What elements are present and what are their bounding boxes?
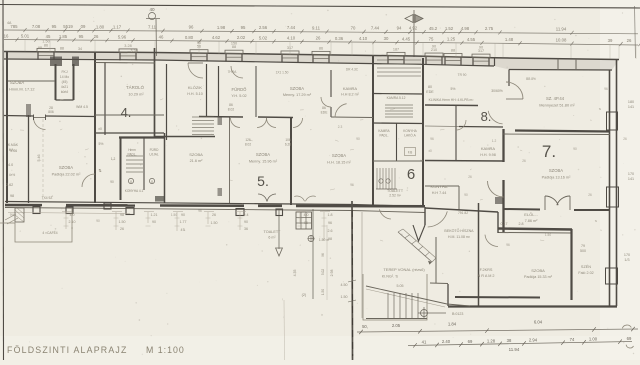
svg-text:88: 88: [60, 47, 64, 51]
svg-text:KAMRA 5.12: KAMRA 5.12: [387, 96, 406, 100]
svg-text:90: 90: [479, 45, 483, 49]
svg-text:90: 90: [432, 44, 436, 48]
room7 top wall y131: [515, 131, 610, 132]
svg-text:3.28: 3.28: [124, 44, 131, 48]
svg-text:96: 96: [198, 209, 202, 213]
svg-text:4.45: 4.45: [402, 36, 411, 41]
basement stair rungs: [398, 229, 436, 262]
bottom dim1 ticks: [359, 327, 635, 334]
svg-text:98: 98: [10, 194, 14, 198]
bottom dimension line 2: [408, 342, 632, 346]
svg-text:7.86 m²: 7.86 m²: [525, 219, 539, 223]
top wall pier fills: [37, 48, 490, 65]
chimney block 2 dark: [72, 57, 79, 67]
top wall inner line left: [4, 59, 494, 66]
porch post 4: [236, 209, 244, 216]
svg-text:FKJ: FKJ: [61, 70, 67, 74]
svg-text:7.: 7.: [542, 142, 556, 161]
svg-text:H.H. 5.10: H.H. 5.10: [187, 92, 203, 96]
svg-text:30: 30: [384, 36, 389, 41]
svg-text:806: 806: [48, 110, 54, 114]
svg-text:4.50: 4.50: [341, 283, 348, 287]
survey point circle: [421, 310, 428, 317]
svg-text:1.80: 1.80: [96, 24, 105, 29]
svg-text:26: 26: [316, 36, 321, 41]
svg-text:1.50: 1.50: [545, 233, 551, 237]
svg-text:2.3: 2.3: [338, 125, 343, 129]
svg-text:88: 88: [451, 48, 455, 52]
porch diagonal marks: [5, 214, 16, 220]
svg-text:1.21: 1.21: [151, 213, 158, 217]
wall x290 main: [290, 117, 292, 205]
svg-text:KONYHA: KONYHA: [431, 184, 448, 189]
svg-text:4.62: 4.62: [212, 35, 221, 40]
svg-text:KI.NG². ⇅: KI.NG². ⇅: [382, 275, 399, 279]
page right border line: [635, 6, 636, 58]
svg-text:6 m²: 6 m²: [268, 236, 276, 240]
svg-text:KAMRA: KAMRA: [378, 129, 390, 133]
svg-text:SZ. 4P.44: SZ. 4P.44: [546, 96, 565, 101]
door arc room8 down: [488, 111, 502, 124]
svg-text:14 Mo: 14 Mo: [60, 75, 69, 79]
svg-text:4.55: 4.55: [467, 37, 476, 42]
svg-text:ELŐL...: ELŐL...: [524, 212, 538, 217]
svg-text:2.10: 2.10: [69, 220, 76, 224]
wall left outer: [6, 52, 8, 203]
svg-text:90: 90: [110, 180, 114, 184]
double door arcs porch B: [294, 196, 304, 201]
room6 upper stair treads: [385, 105, 413, 117]
svg-text:1.2: 1.2: [492, 139, 497, 143]
wall y161 room6: [373, 160, 423, 162]
svg-text:⇅: ⇅: [599, 107, 602, 111]
dark hatch block bottom: [155, 196, 165, 202]
svg-text:SZOBA: SZOBA: [59, 165, 73, 170]
svg-text:5.: 5.: [257, 173, 269, 189]
FB boxed symbol: [405, 148, 416, 156]
svg-text:1.50: 1.50: [171, 213, 177, 217]
svg-text:1.50: 1.50: [341, 295, 348, 299]
svg-text:6.04: 6.04: [534, 320, 543, 325]
svg-text:Hmm.M. 17.12: Hmm.M. 17.12: [9, 87, 35, 92]
svg-text:8.02: 8.02: [228, 108, 235, 112]
double door butterfly room7 bottom: [545, 196, 558, 205]
svg-text:170: 170: [628, 172, 634, 176]
double door butterfly porch: [258, 194, 267, 201]
svg-text:46: 46: [159, 35, 164, 40]
dimension numbers row 2: [4, 34, 632, 43]
small tick marks under wall: [62, 211, 330, 213]
svg-text:SZOBA: SZOBA: [189, 152, 203, 157]
svg-text:90: 90: [356, 137, 360, 141]
svg-text:86: 86: [229, 103, 233, 107]
svg-text:2.05: 2.05: [392, 323, 401, 328]
svg-text:6: 6: [407, 166, 415, 183]
svg-text:1.17: 1.17: [113, 24, 122, 29]
svg-text:95: 95: [79, 34, 84, 39]
svg-text:9.11: 9.11: [312, 25, 321, 30]
svg-text:5.46: 5.46: [37, 155, 41, 162]
porch post extra: [104, 203, 111, 209]
wall x331 upper: [330, 70, 332, 97]
svg-text:4.: 4.: [121, 105, 132, 120]
main bottom wall outer y202: [5, 202, 425, 207]
terrain stair hatch: [388, 293, 418, 318]
svg-text:1.2: 1.2: [111, 157, 116, 161]
wall x436 terrain edge: [435, 237, 437, 283]
svg-text:EDE: EDE: [321, 111, 329, 115]
wall x373 main: [372, 56, 374, 205]
svg-text:95: 95: [52, 24, 57, 29]
door arc room6 porch: [379, 209, 391, 219]
svg-text:Mennyezet 51.80 m²: Mennyezet 51.80 m²: [539, 103, 575, 108]
svg-text:4 ×CAFÉ4: 4 ×CAFÉ4: [42, 230, 57, 235]
svg-text:210: 210: [431, 48, 437, 52]
svg-text:26: 26: [522, 159, 526, 163]
svg-text:UJJAL: UJJAL: [149, 153, 159, 157]
svg-text:H.H. 18.15 m²: H.H. 18.15 m²: [327, 161, 351, 165]
svg-text:±0: ±0: [428, 149, 432, 153]
wc block left wall x120: [120, 138, 122, 201]
svg-text:SZOBA: SZOBA: [290, 86, 304, 91]
svg-text:170: 170: [624, 253, 630, 257]
wall x105 tarolo left: [104, 62, 106, 135]
svg-text:2.75: 2.75: [485, 26, 494, 31]
svg-text:KONYHA 4.1: KONYHA 4.1: [125, 189, 144, 193]
svg-text:Padlója 13.16 m²: Padlója 13.16 m²: [542, 176, 571, 180]
svg-text:KAMRA: KAMRA: [343, 86, 358, 91]
dimension numbers row 1: [10, 24, 566, 32]
svg-text:40: 40: [149, 7, 155, 12]
svg-text:kürtő: kürtő: [61, 90, 68, 94]
svg-text:Y.H. 5.02: Y.H. 5.02: [231, 94, 246, 98]
svg-text:FÜRDŐ: FÜRDŐ: [232, 87, 248, 92]
svg-text:1.8: 1.8: [328, 213, 333, 217]
svg-text:5.05: 5.05: [397, 284, 404, 288]
svg-text:SZÉN: SZÉN: [581, 264, 591, 269]
svg-text:Faló 2.02: Faló 2.02: [578, 271, 593, 275]
wall y126 light x425-459: [425, 125, 459, 128]
svg-text:3.28: 3.28: [131, 49, 138, 53]
wall x166: [166, 64, 168, 140]
svg-text:500: 500: [580, 249, 586, 253]
wall y105 x425-478: [425, 104, 478, 107]
svg-text:1.50: 1.50: [119, 220, 126, 224]
dimension chain line 2: [4, 40, 638, 46]
svg-text:95: 95: [241, 25, 246, 30]
wall y117 x331-373: [331, 116, 373, 119]
svg-text:K.MÁK: K.MÁK: [8, 143, 19, 147]
room7 bottom wall y209: [504, 208, 540, 211]
svg-text:1.98: 1.98: [217, 25, 226, 30]
vertical reference line x156: [155, 19, 158, 56]
svg-text:86: 86: [44, 43, 48, 47]
wall x256 upper: [255, 66, 257, 117]
room interior dim line x43: [42, 119, 44, 200]
svg-text:8.: 8.: [481, 109, 492, 124]
svg-text:TR 90: TR 90: [458, 73, 467, 77]
svg-text:2.62: 2.62: [6, 183, 13, 187]
svg-text:180: 180: [628, 100, 634, 104]
svg-text:1.25: 1.25: [447, 37, 456, 42]
section line x313: [312, 209, 314, 299]
svg-text:×: ×: [321, 313, 323, 317]
svg-text:317: 317: [478, 49, 484, 53]
door arc eloszoba: [428, 211, 448, 227]
svg-text:5519: 5519: [63, 24, 73, 29]
svg-text:8: 8: [130, 180, 132, 184]
right outer wall inner face: [609, 70, 611, 307]
porch post 3: [126, 208, 134, 215]
svg-text:FÜRD: FÜRD: [150, 148, 160, 152]
svg-text:16: 16: [4, 34, 9, 39]
wall x28 pier: [26, 104, 31, 117]
svg-text:41: 41: [422, 340, 427, 345]
svg-text:±0: ±0: [98, 127, 102, 131]
svg-text:86: 86: [319, 46, 323, 50]
bottom right squiggle: [622, 325, 631, 328]
wall y117 rooms 5: [199, 116, 243, 119]
svg-text:SZOBA: SZOBA: [256, 152, 270, 157]
svg-text:(45): (45): [62, 80, 68, 84]
wc block mid wall x144: [143, 138, 145, 191]
svg-text:1X1 1.50: 1X1 1.50: [276, 71, 289, 75]
right outer wall outer face: [616, 60, 618, 307]
left porch steps: [0, 208, 72, 242]
staircase treads small: [126, 156, 143, 172]
wc block top wall y137: [119, 136, 165, 138]
svg-text:BB 8%: BB 8%: [526, 77, 536, 81]
svg-text:34: 34: [78, 47, 82, 51]
dim column x327: [326, 225, 328, 300]
svg-text:6.28: 6.28: [285, 143, 291, 147]
floor drain circle 2: [149, 178, 154, 183]
room6 divider x396: [396, 123, 398, 161]
svg-text:M 1:100: M 1:100: [146, 345, 185, 355]
right wall pilaster 2: [607, 187, 619, 207]
svg-text:45: 45: [46, 34, 51, 39]
scan streaks: [600, 0, 640, 360]
wall x218 upper: [218, 66, 220, 116]
svg-text:7.08: 7.08: [32, 24, 41, 29]
basement stair diagonal arrows: [398, 232, 432, 262]
svg-text:141: 141: [628, 177, 634, 181]
svg-text:98: 98: [38, 46, 42, 50]
eloszoba bottom wall y229: [498, 229, 572, 230]
chimney block 1 dark: [50, 57, 62, 67]
svg-text:4.0: 4.0: [8, 163, 13, 167]
bottom dim2 ticks and numbers: [413, 336, 632, 348]
svg-text:11.94: 11.94: [556, 26, 567, 31]
svg-text:PADL.: PADL.: [380, 134, 389, 138]
svg-text:F.B: F.B: [408, 151, 413, 155]
svg-text:86: 86: [322, 106, 326, 110]
svg-text:2.4: 2.4: [244, 213, 249, 217]
svg-text:4A: 4A: [7, 21, 12, 25]
section line x352 dark: [351, 201, 354, 360]
svg-text:5.96: 5.96: [118, 34, 127, 39]
svg-text:H.H 8.2 m²: H.H 8.2 m²: [341, 93, 360, 97]
top wall outer line: [4, 52, 619, 60]
door arc klozik top: [188, 63, 203, 78]
eloszoba left wall x498 stub: [497, 212, 499, 233]
top wall poche fill: [4, 52, 619, 71]
svg-text:2.6: 2.6: [328, 229, 333, 233]
svg-text:5%: 5%: [99, 142, 104, 146]
dimension chain line 1: [4, 30, 638, 34]
wall x229 lower: [229, 117, 231, 204]
svg-text:TX4 9Z: TX4 9Z: [42, 196, 53, 200]
main bottom wall inner y208: [5, 208, 425, 213]
svg-text:Padlója 22.02 m²: Padlója 22.02 m²: [52, 173, 81, 177]
window ticks right section: [557, 59, 559, 70]
wall y160 x425-503: [425, 160, 503, 163]
svg-text:187: 187: [393, 47, 399, 51]
stair bottom wall y136: [154, 136, 215, 138]
svg-text:(2): (2): [302, 293, 307, 297]
svg-text:Menny. 17.29 m²: Menny. 17.29 m²: [283, 93, 312, 97]
porch post 5: [276, 209, 283, 216]
svg-text:2.94: 2.94: [529, 338, 538, 343]
terrace edge vertical x362: [361, 212, 363, 318]
wall x423 main: [422, 58, 424, 206]
right wall pilaster 3: [606, 268, 618, 284]
svg-text:1.28: 1.28: [487, 338, 496, 343]
svg-text:4.0: 4.0: [304, 213, 309, 217]
dimension ticks row 2: [15, 38, 640, 47]
svg-text:9%: 9%: [10, 213, 15, 217]
svg-text:38: 38: [507, 338, 512, 343]
porch pillar hatched: [15, 208, 24, 222]
svg-text:96: 96: [189, 25, 194, 30]
drain circles room6: [379, 179, 383, 183]
svg-text:2.98: 2.98: [330, 270, 334, 277]
wall y117 gap ticks: [33, 115, 35, 121]
svg-text:90: 90: [152, 220, 156, 224]
svg-text:7.44: 7.44: [371, 26, 380, 31]
svg-text:10.29 m²: 10.29 m²: [128, 92, 144, 97]
wall y93 room6 top: [373, 93, 423, 96]
corridor south wall y210: [425, 208, 498, 212]
svg-text:45.2: 45.2: [429, 26, 438, 31]
svg-text:10.08: 10.08: [556, 37, 567, 42]
wall x455: [455, 106, 457, 162]
window lintel labels: [42, 40, 484, 53]
wall x28 lower: [28, 115, 30, 203]
svg-text:TEREP VONAL (rézsű): TEREP VONAL (rézsű): [383, 267, 425, 272]
room 6 stair hatch: [377, 168, 395, 189]
svg-text:2.02: 2.02: [237, 35, 246, 40]
svg-text:LAKÓ.A: LAKÓ.A: [404, 133, 416, 138]
dimension ticks row 1: [23, 28, 573, 35]
svg-text:1/3: 1/3: [624, 258, 629, 262]
page left border line: [2, 0, 5, 360]
svg-text:26: 26: [468, 175, 472, 179]
door arc left room: [34, 118, 46, 130]
terrain bottom line: [366, 318, 427, 320]
terrain slope second line: [366, 289, 445, 307]
wall x478 lower: [478, 203, 480, 306]
door arc kamra bottom: [335, 104, 347, 118]
svg-text:5.01: 5.01: [21, 34, 30, 39]
svg-text:791 82: 791 82: [458, 211, 468, 215]
svg-text:2.56: 2.56: [259, 25, 268, 30]
svg-text:94: 94: [397, 26, 402, 31]
svg-text:1.50 m: 1.50 m: [319, 238, 330, 242]
svg-text:F.2KRS: F.2KRS: [480, 268, 493, 272]
svg-text:79: 79: [581, 244, 585, 248]
door arc room7 left: [488, 181, 504, 197]
svg-text:KLINIKA Hmm HH: 4.KLPB m²: KLINIKA Hmm HH: 4.KLPB m²: [429, 98, 475, 102]
svg-text:26: 26: [623, 137, 627, 141]
bottom wall stub x448: [447, 284, 449, 306]
stair funnel V: [413, 225, 425, 241]
bottom wall y306 outer: [448, 305, 617, 307]
svg-text:70: 70: [351, 25, 356, 30]
wall y115 x95-164: [95, 114, 164, 116]
svg-text:Padlója 15.33 m²: Padlója 15.33 m²: [524, 275, 553, 279]
svg-text:×: ×: [71, 226, 73, 230]
svg-text:H.H 7.44: H.H 7.44: [432, 191, 447, 195]
wall x219 pier 2: [218, 188, 223, 196]
svg-text:39: 39: [608, 38, 613, 43]
section cut marker diamond: [405, 15, 413, 23]
svg-text:69: 69: [468, 339, 473, 344]
double door arcs room5 A: [231, 118, 241, 128]
svg-text:H.M. 11.08 m²: H.M. 11.08 m²: [448, 235, 471, 239]
wall y126 x459-503: [459, 126, 503, 129]
svg-text:SZOBA: SZOBA: [10, 80, 24, 85]
svg-text:1.50: 1.50: [211, 221, 218, 225]
svg-text:TOALETT: TOALETT: [263, 230, 281, 234]
svg-text:1.50: 1.50: [42, 40, 49, 44]
svg-text:SZOBA: SZOBA: [531, 268, 545, 273]
svg-text:PADL.: PADL.: [128, 153, 137, 157]
svg-text:0.17: 0.17: [501, 222, 508, 226]
main bottom wall segments: [5, 204, 42, 207]
svg-text:KLÓZIK: KLÓZIK: [188, 85, 203, 90]
porch post 2: [66, 207, 73, 214]
svg-text:KAMRA: KAMRA: [481, 146, 496, 151]
svg-text:2.40: 2.40: [442, 339, 451, 344]
svg-text:WM 4.5: WM 4.5: [76, 105, 88, 109]
corridor pier block: [495, 197, 503, 204]
stair block top wall y133: [95, 132, 164, 134]
door arc fur do: [231, 66, 243, 78]
svg-text:H.H. 9.98: H.H. 9.98: [480, 153, 496, 157]
svg-text:0.36: 0.36: [335, 36, 344, 41]
extra micro annotations: [10, 87, 627, 317]
flue shaft bottom: [56, 99, 74, 101]
svg-text:4.10: 4.10: [287, 36, 296, 41]
porch dimension clusters: [64, 212, 333, 241]
staircase treads upper right: [192, 117, 214, 135]
entry stairs hatch x376-421: [377, 60, 421, 76]
svg-text:0.80: 0.80: [185, 35, 194, 40]
svg-text:30/60%: 30/60%: [491, 89, 503, 93]
svg-text:150: 150: [231, 41, 237, 45]
svg-text:2.52 m²: 2.52 m²: [389, 194, 401, 198]
svg-text:7.11: 7.11: [148, 25, 157, 30]
porch post 1: [33, 207, 40, 214]
svg-text:BEKÖTŐ HÍSZNA: BEKÖTŐ HÍSZNA: [444, 228, 474, 233]
section cut vertical line upper: [413, 10, 415, 57]
svg-text:26: 26: [588, 193, 592, 197]
svg-text:N R A M 2: N R A M 2: [477, 274, 494, 278]
wall x503 thick lower: [502, 180, 504, 232]
svg-text:96: 96: [506, 243, 510, 247]
svg-text:90: 90: [573, 147, 577, 151]
